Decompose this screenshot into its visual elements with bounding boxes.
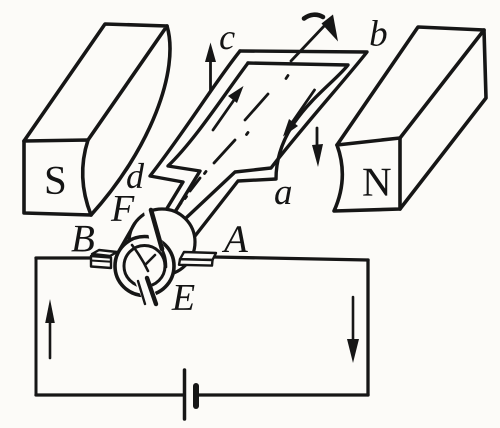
current arrow down in right circuit wire xyxy=(347,297,359,363)
rotation direction curved arrow xyxy=(304,15,338,42)
svg-text:b: b xyxy=(369,14,388,55)
magnet S front face xyxy=(24,140,91,215)
commutator inside axle tick xyxy=(146,255,155,264)
coil inner outline right portion xyxy=(195,63,348,236)
svg-text:A: A xyxy=(221,218,248,261)
commutator front inner ring xyxy=(124,246,165,287)
coil inner outline left portion xyxy=(168,63,248,212)
coil outer outline left portion (d side, wire down to commutator) xyxy=(150,51,240,210)
brush B plate front face xyxy=(91,256,111,268)
commutator split gap lower right edge (segment E edge) xyxy=(147,278,156,304)
commutator cylinder body (back rim) xyxy=(129,209,195,275)
current arrow in coil side dc (up-right) xyxy=(213,86,244,130)
commutator inside right arc xyxy=(161,248,166,267)
svg-text:N: N xyxy=(362,159,392,205)
commutator split gap lower left edge xyxy=(138,281,145,304)
brush B plate top face xyxy=(92,250,117,256)
brush B plate mid edge xyxy=(91,261,111,262)
brush A plate front face xyxy=(179,259,213,265)
wire top left to brush B xyxy=(36,256,92,259)
svg-text:E: E xyxy=(171,277,195,319)
svg-text:a: a xyxy=(274,172,293,213)
rotation axis solid segment at top xyxy=(291,24,326,61)
commutator inside back edge curve xyxy=(132,245,148,271)
magnet S top face xyxy=(24,24,167,141)
force arrow up at side c xyxy=(205,43,216,92)
wire left vertical of circuit xyxy=(35,258,38,395)
commutator front outer ring xyxy=(115,237,174,296)
svg-text:S: S xyxy=(44,157,67,203)
commutator body upper-left tangent edge xyxy=(120,223,135,249)
commutator split gap lower (white band) xyxy=(135,277,159,308)
force arrow down at side ab xyxy=(312,128,323,167)
wire top right from brush A xyxy=(214,257,368,260)
battery long plate xyxy=(183,370,187,419)
wire bottom left to battery xyxy=(36,393,183,396)
magnet N top face xyxy=(337,27,484,145)
commutator split gap upper edge (segment F edge) xyxy=(151,210,162,249)
current arrow in coil side ab (down-left) xyxy=(283,90,315,137)
rotation axis dash-dot line xyxy=(172,76,288,216)
current arrow up in left circuit wire xyxy=(45,299,55,358)
coil outer outline right portion (b side, wire to commutator segment E) xyxy=(186,51,367,218)
svg-text:c: c xyxy=(219,17,235,57)
commutator split gap upper (white band) xyxy=(144,208,164,253)
magnet N front face xyxy=(334,138,400,211)
brush A plate top face xyxy=(180,252,216,260)
wire bottom right from battery xyxy=(198,393,368,396)
wire right vertical of circuit xyxy=(366,260,369,395)
svg-text:F: F xyxy=(110,188,135,230)
magnet S curved pole silhouette xyxy=(91,26,170,215)
magnet N right face xyxy=(400,30,486,209)
svg-text:B: B xyxy=(71,217,95,260)
battery short plate xyxy=(193,386,199,406)
